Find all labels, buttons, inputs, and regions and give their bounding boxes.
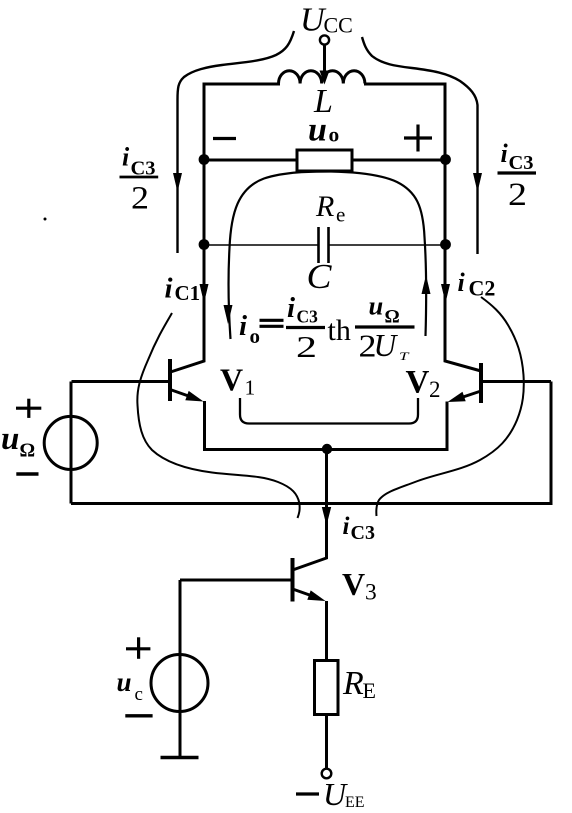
wire R_e/C left (thin): [204, 244, 318, 246]
svg-text:V: V: [220, 362, 243, 398]
svg-text:U: U: [374, 328, 399, 363]
label R_E: [342, 665, 376, 703]
arrow i_C1 down: [200, 284, 209, 303]
svg-text:C1: C1: [175, 281, 201, 305]
label -U_EE: [296, 792, 319, 795]
label u_o: [308, 112, 339, 149]
wire top right: [364, 83, 445, 86]
svg-text:T: T: [399, 349, 410, 363]
svg-text:i: i: [239, 310, 247, 342]
svg-text:E: E: [363, 678, 376, 703]
speck: [44, 218, 47, 221]
V1 emitter: [172, 390, 198, 399]
svg-text:1: 1: [245, 376, 256, 400]
svg-text:C3: C3: [297, 307, 319, 327]
wire to resistor right: [352, 159, 445, 162]
svg-text:u: u: [1, 421, 19, 457]
source u_Omega (circle): [44, 416, 97, 469]
arrow i_C3 (down): [322, 507, 331, 526]
wire U_CC to inductor: [323, 45, 326, 72]
svg-text:C3: C3: [351, 522, 375, 544]
source u_c wire: [179, 580, 182, 757]
svg-text:V: V: [342, 566, 365, 602]
terminal U_CC (open circle): [320, 35, 329, 44]
transistor V2 base bar: [479, 363, 483, 403]
svg-text:3: 3: [365, 580, 377, 606]
sign plus (right of u_o): [404, 136, 432, 139]
wire R_e/C right (thin): [329, 244, 445, 246]
arrow on left sweep: [173, 173, 182, 192]
svg-text:C3: C3: [509, 152, 534, 174]
S-curve right (current path): [376, 297, 523, 516]
wire left vertical + V1 collector: [171, 83, 205, 373]
arrow dome right (up): [422, 275, 431, 294]
capacitor C plates: [317, 227, 320, 263]
svg-text:i: i: [343, 513, 350, 540]
label L: [313, 83, 333, 120]
curve sweep left (from U_CC): [178, 31, 295, 253]
arrow dome left (down): [224, 305, 233, 324]
dome arch (current loop): [229, 172, 427, 340]
label C: [307, 257, 333, 296]
wire to resistor left: [204, 159, 297, 162]
svg-text:2: 2: [131, 181, 149, 217]
wire top left: [204, 83, 280, 86]
node left C (dot): [199, 239, 210, 250]
sign minus (left of u_o): [213, 137, 236, 140]
S-curve left (current path): [137, 313, 299, 518]
source u_c (circle): [151, 655, 208, 712]
node left (dot): [199, 154, 210, 165]
label i_C2: [458, 268, 496, 301]
svg-text:e: e: [336, 203, 345, 227]
bottom wire: [71, 382, 551, 504]
svg-text:i: i: [165, 273, 173, 305]
svg-text:i: i: [458, 268, 466, 297]
svg-text:o: o: [250, 324, 261, 348]
label i_C3/2 left (fraction): [122, 143, 156, 180]
transistor V1 base bar: [168, 359, 172, 401]
svg-text:u: u: [308, 112, 327, 149]
svg-text:C: C: [307, 257, 333, 296]
label i_C3: [343, 513, 375, 544]
V2 base wire: [483, 380, 551, 383]
label i_C3/2 right (fraction): [501, 139, 534, 174]
label V1: [220, 362, 255, 400]
resistor (output): [297, 150, 352, 171]
emitter common path: [205, 401, 448, 450]
svg-text:Ω: Ω: [20, 441, 36, 462]
node right C (dot): [440, 239, 451, 250]
svg-text:c: c: [135, 684, 143, 705]
V3 base wire: [180, 579, 291, 582]
label u_c: [117, 667, 143, 705]
sign plus u_c: [126, 647, 150, 650]
svg-text:i: i: [501, 139, 509, 168]
svg-text:o: o: [329, 123, 340, 147]
svg-text:R: R: [342, 665, 364, 702]
terminal -U_EE (open circle): [322, 769, 332, 779]
label V3: [342, 566, 377, 606]
svg-text:u: u: [369, 291, 384, 321]
svg-text:EE: EE: [345, 794, 365, 811]
V2 emitter: [454, 392, 480, 401]
sign plus u_Omega: [16, 407, 41, 410]
ground: [161, 756, 199, 760]
svg-text:i: i: [287, 292, 295, 324]
V1 base wire: [72, 380, 169, 383]
sign minus u_c: [125, 714, 152, 717]
arrow on right sweep: [473, 173, 482, 192]
label u_Omega: [1, 421, 35, 462]
svg-text:u: u: [117, 667, 132, 697]
source u_Omega wire: [70, 382, 73, 504]
wire right vertical + V2 collector: [445, 83, 481, 372]
inductor L: [279, 71, 365, 84]
label V2: [406, 365, 441, 403]
formula i_o = i_C3/2 th u_O/2U_T: [239, 291, 410, 365]
resistor R_E: [315, 661, 339, 715]
svg-text:th: th: [328, 314, 351, 347]
label U_CC: [300, 2, 353, 39]
svg-text:V: V: [406, 365, 430, 401]
svg-text:2: 2: [296, 329, 317, 364]
label R_e: [315, 190, 345, 227]
svg-text:Ω: Ω: [385, 307, 400, 328]
wire common emitter to V3 + collector: [294, 449, 327, 570]
transistor V3 base bar: [291, 558, 295, 602]
curve sweep right (from U_CC): [362, 37, 478, 254]
svg-text:R: R: [315, 190, 334, 223]
svg-text:i: i: [122, 143, 130, 172]
wire R_E to terminal: [325, 715, 328, 770]
V3 emitter: [294, 590, 318, 599]
inner U bracket (emitter coupling): [240, 398, 418, 424]
node common emitter (dot): [322, 444, 332, 454]
sign minus u_Omega: [16, 472, 38, 475]
arrow i_C2 down: [441, 284, 450, 303]
svg-text:2: 2: [429, 377, 441, 402]
label i_C1: [165, 273, 201, 306]
node right (dot): [440, 154, 451, 165]
svg-text:2: 2: [508, 177, 527, 213]
svg-text:CC: CC: [324, 13, 353, 38]
